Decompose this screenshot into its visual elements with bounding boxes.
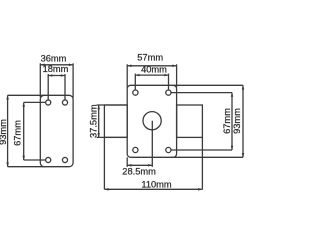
40mm extension line right bbox=[168, 74, 170, 93]
left view: strike plate outline bbox=[40, 95, 73, 166]
40mm dimension line bbox=[135, 74, 168, 76]
37.5mm extension line bottom bbox=[97, 136, 128, 138]
right view mounting holes bbox=[133, 90, 171, 153]
bolt box (latch, side projection left of plate) bbox=[104, 105, 127, 137]
57mm extension line left bbox=[126, 64, 128, 87]
36mm dimension line bbox=[40, 64, 73, 66]
67mm extension line bottom bbox=[24, 159, 46, 161]
57mm arrows bbox=[127, 65, 131, 68]
18mm dimension line bbox=[48, 75, 65, 77]
93mm arrows (left) bbox=[6, 95, 9, 99]
37.5mm dimension line bbox=[98, 105, 100, 137]
svg-text:18mm: 18mm bbox=[43, 64, 69, 74]
28.5mm dimension line bbox=[127, 164, 152, 166]
93mm extension line bottom (right view) bbox=[172, 156, 243, 158]
37.5mm arrows bbox=[97, 105, 100, 109]
67mm dimension line (right view) bbox=[231, 93, 233, 150]
40mm extension line left bbox=[134, 74, 136, 93]
18mm extension line right bbox=[64, 74, 66, 103]
svg-text:28.5mm: 28.5mm bbox=[122, 166, 156, 176]
67mm arrows (right) bbox=[231, 93, 234, 97]
93mm dimension line (right view) bbox=[242, 85, 244, 157]
67mm extension line top bbox=[24, 101, 46, 103]
36mm extension line right bbox=[72, 63, 74, 97]
36mm extension line left bbox=[39, 63, 41, 97]
svg-text:93mm: 93mm bbox=[0, 119, 8, 145]
right view: lock front plate bbox=[127, 85, 176, 157]
67mm arrows (left) bbox=[22, 102, 25, 106]
dimension arrowheads bbox=[6, 64, 244, 191]
36mm arrows bbox=[40, 64, 44, 67]
lock case box (side view, right of plate) bbox=[177, 105, 203, 137]
57mm dimension line bbox=[127, 65, 176, 67]
93mm extension line top bbox=[8, 94, 45, 96]
svg-text:40mm: 40mm bbox=[141, 65, 167, 75]
110mm arrows bbox=[104, 188, 108, 191]
110mm dimension line bbox=[104, 188, 202, 190]
93mm arrows (right) bbox=[242, 85, 245, 89]
93mm dimension line (left view) bbox=[7, 95, 9, 166]
svg-text:36mm: 36mm bbox=[41, 53, 67, 63]
28.5mm extension line left bbox=[126, 157, 128, 167]
svg-text:67mm: 67mm bbox=[222, 108, 232, 134]
93mm extension line top (right view) bbox=[172, 84, 243, 86]
110mm extension line right bbox=[201, 137, 203, 189]
28.5mm arrows bbox=[127, 164, 131, 167]
svg-text:110mm: 110mm bbox=[141, 179, 172, 189]
left view mounting holes bbox=[46, 100, 68, 163]
18mm extension line left bbox=[47, 74, 49, 103]
40mm arrows bbox=[135, 74, 139, 77]
svg-text:37.5mm: 37.5mm bbox=[88, 104, 98, 138]
110mm extension line left bbox=[103, 137, 105, 189]
18mm arrows bbox=[48, 74, 52, 77]
67mm extension line top (right view) bbox=[171, 92, 232, 94]
leader line from circle centre down bbox=[151, 121, 153, 167]
93mm extension line bottom bbox=[8, 166, 45, 168]
37.5mm extension line top bbox=[97, 104, 128, 106]
67mm dimension line (left view) bbox=[23, 102, 25, 160]
67mm extension line bottom (right view) bbox=[171, 149, 232, 151]
svg-text:57mm: 57mm bbox=[137, 52, 163, 62]
keyhole circle bbox=[143, 112, 161, 130]
svg-text:67mm: 67mm bbox=[12, 120, 22, 146]
57mm extension line right bbox=[176, 64, 178, 87]
svg-text:93mm: 93mm bbox=[232, 108, 242, 134]
